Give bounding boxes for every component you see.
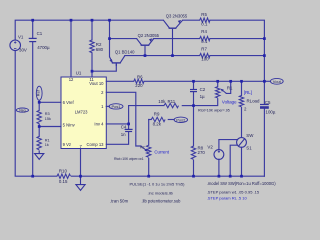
- svg-text:100µ: 100µ: [266, 110, 276, 115]
- svg-text:Rtot=10K wiper=.95: Rtot=10K wiper=.95: [198, 109, 230, 113]
- svg-text:9 Vz: 9 Vz: [63, 142, 71, 147]
- svg-text:220: 220: [135, 83, 143, 88]
- svg-text:RLoad: RLoad: [247, 99, 260, 104]
- svg-text:.STEP param w1 .05 0.95 .15: .STEP param w1 .05 0.95 .15: [207, 189, 260, 194]
- svg-text:.STEP param RL .5 10: .STEP param RL .5 10: [207, 196, 248, 201]
- svg-text:Voltage: Voltage: [222, 100, 237, 105]
- svg-text:270: 270: [198, 150, 206, 155]
- svg-text:.lib potentiometer.sub: .lib potentiometer.sub: [142, 199, 182, 204]
- svg-text:R2: R2: [140, 146, 145, 150]
- svg-text:Current: Current: [154, 150, 169, 155]
- svg-text:Vout: Vout: [273, 79, 282, 84]
- svg-text:S1: S1: [246, 145, 252, 150]
- svg-text:1k: 1k: [45, 143, 49, 147]
- svg-text:PULSE(1 -1 0 1u 1u 2m5 7m5): PULSE(1 -1 0 1u 1u 2m5 7m5): [130, 181, 186, 186]
- svg-text:Comp 13: Comp 13: [87, 142, 105, 147]
- svg-text:R6: R6: [137, 74, 143, 79]
- svg-text:LM723: LM723: [75, 110, 88, 115]
- svg-text:Pos2: Pos2: [176, 117, 186, 122]
- svg-text:SW: SW: [246, 133, 254, 138]
- svg-text:R4: R4: [201, 29, 207, 34]
- svg-text:R9: R9: [154, 111, 160, 116]
- svg-text:5 NInv: 5 NInv: [63, 122, 76, 127]
- svg-text:8.2k: 8.2k: [153, 121, 162, 126]
- svg-text:30V: 30V: [19, 47, 27, 52]
- svg-text:[RL]: [RL]: [244, 90, 252, 95]
- svg-text:C2: C2: [200, 87, 206, 92]
- svg-text:V2: V2: [207, 145, 213, 150]
- svg-text:R1: R1: [227, 85, 233, 90]
- svg-text:4700µ: 4700µ: [37, 45, 50, 50]
- svg-text:1µ: 1µ: [200, 94, 205, 99]
- svg-text:Ref: Ref: [36, 89, 41, 96]
- svg-text:Q3 2N3055: Q3 2N3055: [166, 14, 188, 19]
- svg-text:Q1 BD140: Q1 BD140: [115, 50, 135, 55]
- svg-text:.inc models.lib: .inc models.lib: [148, 191, 174, 196]
- svg-text:680: 680: [96, 47, 104, 52]
- svg-text:0.15: 0.15: [59, 179, 68, 184]
- svg-text:C4: C4: [121, 124, 127, 129]
- svg-text:V1: V1: [18, 34, 24, 39]
- svg-text:.tran 50m: .tran 50m: [110, 199, 129, 204]
- svg-text:0.1: 0.1: [201, 39, 208, 44]
- svg-text:.model SW SW(Ron=1u Roff=1000G: .model SW SW(Ron=1u Roff=1000G): [207, 181, 277, 186]
- svg-text:Neg: Neg: [19, 109, 25, 113]
- svg-text:U1: U1: [76, 70, 82, 75]
- svg-text:0.1: 0.1: [201, 22, 208, 27]
- svg-text:C1: C1: [37, 31, 43, 36]
- svg-text:15k: 15k: [45, 117, 51, 121]
- svg-text:R3: R3: [45, 112, 50, 116]
- svg-text:R5: R5: [201, 12, 207, 17]
- svg-text:R10: R10: [59, 168, 68, 173]
- svg-text:R1: R1: [45, 138, 50, 142]
- svg-text:Vout 10: Vout 10: [89, 81, 104, 86]
- svg-text:Rtot=10K wiper=w1: Rtot=10K wiper=w1: [114, 157, 144, 161]
- svg-text:R7: R7: [201, 46, 207, 51]
- svg-text:10k: 10k: [158, 99, 166, 104]
- svg-text:R11: R11: [168, 99, 176, 104]
- svg-text:Q2 2N3055: Q2 2N3055: [138, 33, 160, 38]
- svg-text:12: 12: [69, 77, 74, 82]
- svg-text:6 Vref: 6 Vref: [63, 100, 75, 105]
- svg-text:Pos1: Pos1: [111, 104, 121, 109]
- svg-text:1n: 1n: [121, 132, 126, 137]
- svg-text:C5: C5: [265, 100, 271, 105]
- svg-text:Inv 4: Inv 4: [94, 122, 104, 127]
- svg-text:100: 100: [201, 57, 209, 62]
